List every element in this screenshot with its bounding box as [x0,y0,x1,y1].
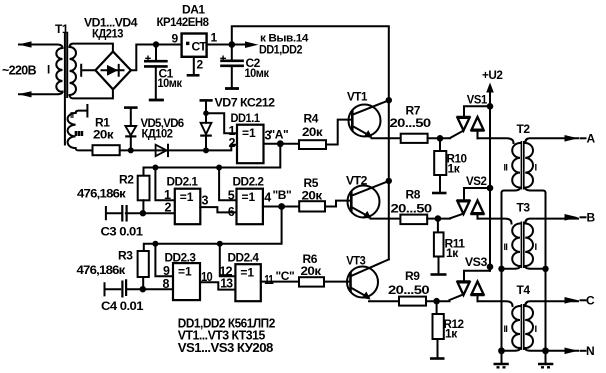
resistor R12 1k [433,301,465,357]
wire: winding III top lead with terminal tick [76,105,88,117]
wire: VD7 to DD1.1 pin 1 [206,113,237,133]
wire: DD2.4 output node C to R6 [261,281,299,283]
svg-text:9: 9 [163,264,170,278]
resistor R1 20k [93,116,120,156]
svg-text:1: 1 [211,31,218,45]
wire: VT2 emitter row line [371,218,401,220]
wire: DD2.3 out to DD2.4 pin 13 [200,282,235,289]
wire: winding II bottom to bridge bottom vertex [70,90,113,99]
wire: drop to DD2.3 pin 9 [155,244,173,276]
svg-text:А: А [587,132,596,146]
thyristor VS2 KU208 [457,174,491,219]
svg-text:С: С [586,294,595,308]
svg-text:КД102: КД102 [142,127,174,141]
wire: bridge output to DC rail [131,45,182,71]
svg-text:13: 13 [220,276,233,290]
svg-text:I: I [535,242,538,253]
node: VS1 anode on +U2 rail [487,103,494,110]
logic gate DD2.2 [228,175,271,225]
svg-text:9: 9 [172,32,179,46]
svg-text:"В": "В" [273,188,292,202]
svg-text:II: II [504,242,508,252]
ground: below R10 [432,192,447,195]
resistor R6 20k [299,252,324,287]
svg-text:=1: =1 [180,190,194,204]
wire: R8 to gate node [427,214,463,219]
ground: neutral [538,364,553,367]
svg-text:VS3: VS3 [465,255,488,269]
svg-text:2: 2 [165,201,172,215]
node: VS3 gate node [433,298,440,305]
rectifier bridge VD1...VD4 KD213 [84,16,138,90]
node: junction VD7 [203,147,209,153]
svg-text:VS1...VS3 КУ208: VS1...VS3 КУ208 [178,341,274,355]
ground: DA1 pin 2 bar [187,74,200,77]
svg-text:=1: =1 [242,126,256,140]
node A [277,140,284,147]
logic gate DD2.4 [219,251,274,302]
node: VS2 gate node [435,215,442,222]
resistor R2 476,186k [77,173,150,214]
svg-text:20...50: 20...50 [388,283,430,297]
node: output C arrow [565,297,579,304]
resistor R5 20k [299,176,325,212]
svg-text:R3: R3 [118,249,133,263]
svg-text:1к: 1к [448,162,461,176]
svg-text:20к: 20к [301,264,323,278]
node: VT2 collector on +9V rail [386,178,392,184]
svg-text:КР142ЕН8: КР142ЕН8 [157,15,210,29]
capacitor C3 0.01 [101,205,175,239]
svg-text:3: 3 [202,194,209,208]
svg-text:10мк: 10мк [158,76,183,90]
thyristor VS3 KU208 [457,255,491,301]
node: output N arrow [565,348,579,355]
wire: R9 to gate node [426,295,463,302]
svg-text:В: В [587,211,596,225]
node: feedback junction pin5 [216,165,222,171]
wire: bridge left vertex lead with terminal tick [81,65,95,76]
resistor R4 20k [299,112,326,150]
zener VD7 KS212 [200,96,276,151]
node: T4 secondary bottom / neutral junction [542,347,549,354]
svg-text:=1: =1 [178,265,192,279]
node: T3 primary bottom junction [498,266,504,272]
node: R3/C4/pin8 junction [140,286,146,292]
resistor R8 20...50 [391,188,433,225]
svg-text:VT1: VT1 [347,90,368,104]
svg-text:=1: =1 [240,266,254,280]
wire: mains input top lead with arrow [19,45,63,49]
wire: top +9V rail to VT collectors [232,26,389,259]
wire: T4 secondary to output C [525,301,578,306]
node: VD7 anode junction to DD1.1 pin 1 [203,110,209,116]
transformer T3 [502,201,546,272]
resistor R3 476,186k [77,249,149,290]
diode VD6 KD102 (series) [156,145,168,156]
svg-text:2: 2 [197,58,204,72]
svg-text:11: 11 [264,273,274,287]
wire: T3 secondary to output B [525,219,578,224]
svg-text:476,186к: 476,186к [77,187,127,201]
svg-text:DD2.1: DD2.1 [167,175,199,189]
wire: drop to DD2.2 pin 5 [219,168,236,201]
svg-text:20к: 20к [302,125,324,139]
node: VS1 gate node [437,135,444,142]
node: T3 secondary bottom junction [542,266,548,272]
+U2 supply arrow [482,68,503,271]
wire: primary return column [501,193,503,363]
svg-text:=1: =1 [242,190,256,204]
svg-text:6: 6 [228,205,235,219]
svg-text:VS2: VS2 [466,174,487,188]
svg-text:I: I [535,162,538,173]
wire: R5 to VT2 base [325,201,351,207]
wire: VS1 cathode line to T2 primary [478,138,514,143]
ground: C1 common bar [149,99,164,102]
wire: T2 secondary to output A [525,138,578,143]
transistor VT1 KT315 [347,90,389,139]
node B [278,203,285,210]
wire: VT1 emitter row line [372,137,401,139]
wire: arrow to pin 14 DD1,DD2 [245,41,259,48]
svg-text:20к: 20к [93,128,115,142]
svg-text:С4 0.01: С4 0.01 [101,299,144,313]
wire: VT3 emitter row line [369,300,399,302]
svg-text:R9: R9 [405,269,420,283]
wire: winding III bottom lead to R1 [76,148,93,150]
node: R2/C3/pin2 junction [140,210,146,216]
logic gate DD2.3 [163,251,213,301]
wire: VS3 cathode line to T4 primary [478,301,513,306]
wire: R4 to VT1 base [326,120,352,145]
svg-text:+U2: +U2 [482,68,503,82]
svg-text:~220В: ~220В [2,64,37,78]
wire: output N line [546,350,579,352]
svg-text:II: II [504,324,508,334]
svg-text:DD2.4: DD2.4 [228,251,260,265]
svg-text:476,186к: 476,186к [77,263,127,277]
svg-text:2: 2 [229,136,236,150]
wire: secondary neutral column [545,193,547,363]
transistor VT3 KT315 [346,254,389,300]
svg-text:VS1: VS1 [467,93,488,107]
svg-text:КД213: КД213 [92,27,124,41]
capacitor C2 10uF [220,45,270,88]
resistor R7 20...50 [390,104,432,143]
ground: below R11 [431,273,447,276]
svg-text:20...50: 20...50 [391,201,433,215]
capacitor C4 0.01 [101,279,173,313]
svg-text:I: I [535,324,538,335]
component info text block [178,317,276,356]
svg-text:С3 0.01: С3 0.01 [101,225,144,239]
node: VS2 anode on +U2 rail [487,185,494,192]
node: feedback junction pin9 [152,241,158,247]
svg-text:Т2: Т2 [517,122,531,136]
transistor VT2 KT315 [346,174,389,220]
svg-text:1к: 1к [446,246,459,260]
thyristor VS1 KU208 [457,93,491,139]
node: T4 primary bottom junction [498,347,505,354]
wire: VS2 cathode line to T3 primary [478,219,512,224]
wire: R6 to VT3 base [324,281,351,283]
capacitor C1 10uF [144,45,183,99]
transformer T1 [47,22,84,148]
ground: primary return [494,364,509,367]
voltage regulator DA1 KR142EN8 [157,3,218,76]
diode VD5 KD102 [124,108,184,151]
wire: mains input bottom lead with arrow [19,92,63,95]
svg-text:R8: R8 [406,188,421,202]
svg-text:VT3: VT3 [346,254,366,268]
svg-text:N: N [586,344,595,358]
svg-text:R4: R4 [304,112,319,126]
svg-text:5: 5 [228,189,235,203]
svg-text:"А": "А" [270,128,289,142]
svg-text:10мк: 10мк [245,66,270,80]
wire: DA1 output to node [207,44,245,46]
logic gate DD1.1 K561LP2 [229,111,272,163]
svg-text:1к: 1к [445,327,458,341]
node: junction C1 [153,41,159,47]
node: junction VD5 [128,147,134,153]
node: output B arrow [565,214,579,221]
wire: main bias line R1 to DD1.1 pin 2 [120,145,237,151]
node: VT1 collector on +9V rail [386,97,392,103]
node: +9V junction (C2, to pin14, top rail) [229,41,236,48]
node: feedback junction pin12 [217,241,223,247]
wire: R7 to gate node [428,131,463,138]
ground: C2 common bar [225,87,239,90]
logic gate DD2.1 [164,175,209,225]
svg-text:"С": "С" [276,269,295,283]
svg-text:4: 4 [264,191,271,205]
resistor R9 20...50 [388,269,430,306]
svg-text:II: II [504,162,508,172]
svg-text:VD7 КС212: VD7 КС212 [215,96,276,110]
ground: below R12 [430,357,445,360]
svg-text:СТ: СТ [192,40,208,54]
svg-text:20...50: 20...50 [390,116,432,130]
wire: drop to DD2.4 pin 12 [220,244,236,276]
svg-text:R2: R2 [119,173,134,187]
transformer T4 [502,283,546,353]
node: VS3 anode on +U2 rail [487,264,494,271]
wire: node A feedback to DD2.1/DD2.2 inputs [144,144,281,176]
wire: node B feedback to DD2.3/DD2.4 inputs [144,207,282,252]
wire: winding II top to bridge top vertex [70,44,113,52]
transformer T2 [502,122,546,193]
wire: DD1.1 output to node A [264,143,300,145]
wire: DD2.1 out to DD2.2 pin 6 [200,207,236,212]
svg-text:DD2.2: DD2.2 [233,175,265,189]
node: output A arrow [565,135,579,142]
node: feedback junction pin1 [152,165,158,171]
svg-text:DD1,DD2: DD1,DD2 [259,43,303,57]
svg-text:Т4: Т4 [517,283,531,297]
svg-text:I: I [47,65,50,77]
resistor R10 1k [434,138,467,192]
svg-text:8: 8 [163,277,170,291]
svg-text:DD1.1: DD1.1 [231,111,261,125]
wire: DD2.2 output to node B [263,206,299,208]
svg-text:Т3: Т3 [517,201,531,215]
wire: drop to DD2.1 pin 1 [155,168,174,201]
resistor R11 1k [434,219,465,274]
